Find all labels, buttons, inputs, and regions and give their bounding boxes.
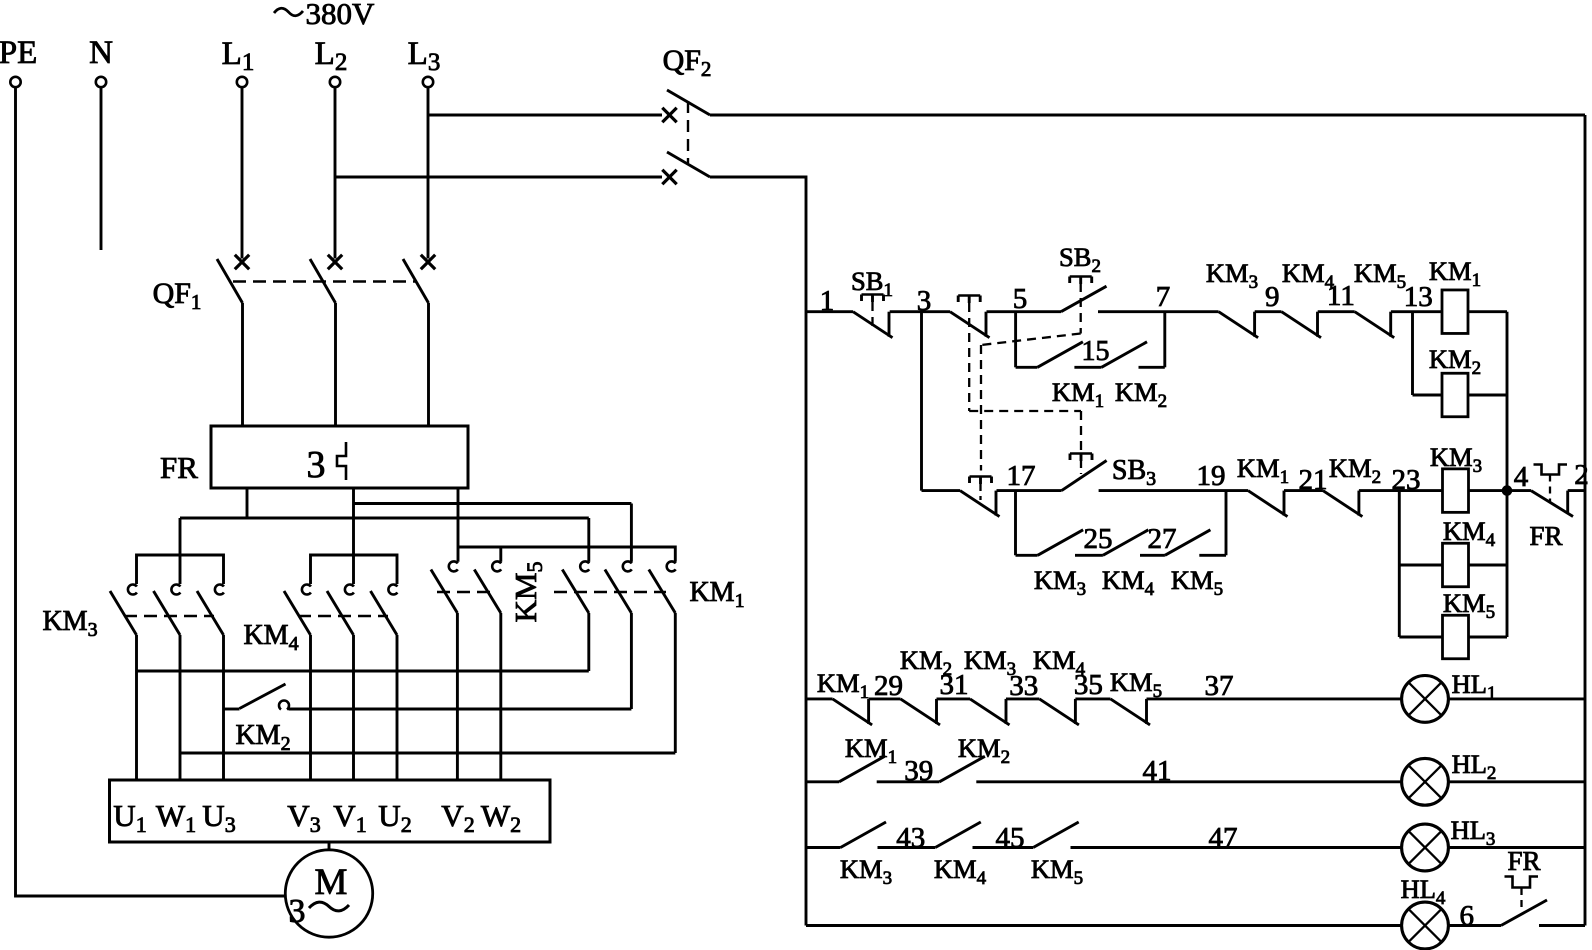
wire bypass riser to node19 — [1225, 491, 1228, 556]
wire H2 right KM2 to KM1p2 — [289, 708, 632, 711]
breaker QF2 linkage dashed — [687, 101, 689, 163]
pushbutton SB2 dashed slope — [981, 334, 1081, 346]
contactor KM5 NO bypass — [1165, 530, 1211, 556]
wire node13 drop — [1411, 312, 1414, 395]
coil KM4 — [1443, 543, 1469, 587]
thermal FR bottom dashed stem — [1520, 888, 1522, 912]
motor tilde — [309, 902, 349, 911]
wire HL4 to FR — [1449, 924, 1502, 927]
contactor KM4 pole1 — [302, 585, 311, 595]
svg-text:2: 2 — [1574, 459, 1589, 491]
contactor KM5/KM1 bridge — [457, 547, 675, 562]
wire KM1 coil to right rail — [1468, 310, 1507, 313]
pushbutton SB3 head over rung1 NC — [958, 294, 980, 297]
wire node17 bypass drop — [1014, 491, 1017, 556]
wire bypass seg4 — [1199, 554, 1226, 557]
wire HL3 rung start — [806, 846, 841, 849]
wire QF1 pole3 to FR box — [427, 303, 430, 426]
contactor KM1 linkage dashed — [554, 591, 666, 593]
terminal L1 circle — [237, 77, 247, 87]
wire HL1 to bus — [1449, 697, 1586, 700]
wire 47 to HL3 — [1071, 846, 1402, 849]
pushbutton SB2 NC contact 3-17 — [960, 491, 1000, 517]
breaker QF1 linkage dashed — [233, 280, 417, 282]
pushbutton SB3 linkage dashed down — [968, 303, 970, 411]
contactor KM3 NO contact HL3 — [841, 822, 887, 848]
motor M circle — [285, 850, 372, 937]
wire FR out1 — [246, 488, 249, 518]
contactor KM2 NC contact HL1 — [901, 699, 941, 725]
wire FR out3 to KM5 pole1 — [457, 488, 460, 562]
wire W2 column — [499, 613, 502, 780]
breaker QF1 pole1 x-mark — [235, 255, 249, 269]
wire SB2 to node7 — [1098, 310, 1219, 313]
wire QF1 pole2 to FR box — [334, 303, 337, 426]
wire 13 to KM1 coil — [1391, 310, 1442, 313]
wire U1 column — [135, 635, 138, 780]
lamp HL4 — [1402, 902, 1449, 949]
contactor KM1 NO contact HL2 — [839, 756, 885, 782]
contactor KM4 pole2 — [345, 585, 354, 595]
svg-text:9: 9 — [1265, 281, 1280, 313]
svg-text:4: 4 — [1514, 461, 1529, 493]
terminal PE circle — [10, 77, 20, 87]
wire L1 to QF1 — [241, 88, 244, 259]
lamp HL3 — [1402, 824, 1449, 871]
wire bypass seg2 — [1075, 554, 1103, 557]
breaker QF1 pole3 blade — [403, 259, 429, 303]
net label ~380V tilde — [274, 8, 303, 16]
svg-text:47: 47 — [1209, 822, 1238, 854]
wire SB1 to node3 — [890, 310, 950, 313]
wire 45 — [973, 846, 1034, 849]
breaker QF2 pole2 x-mark — [662, 170, 676, 184]
svg-text:3: 3 — [289, 893, 306, 930]
wire HL1 rung start — [806, 697, 833, 700]
contactor KM5 linkage dashed — [437, 591, 492, 593]
wire 35 — [1075, 697, 1110, 700]
wire E left drop to KM3 center — [179, 518, 182, 584]
contactor KM2 NO holding — [1102, 342, 1148, 368]
wire 31 — [937, 697, 971, 700]
contactor KM4 NC contact HL1 — [1039, 699, 1079, 725]
breaker QF1 pole3 x-mark — [421, 255, 435, 269]
pushbutton SB2 head — [1070, 275, 1092, 278]
wire E phase1 distribution — [180, 517, 589, 520]
pushbutton SB1 head — [862, 293, 884, 296]
wire 41 to HL2 — [976, 780, 1401, 783]
coil KM3 — [1443, 469, 1469, 512]
pushbutton SB3 NO contact 17-19 — [1062, 461, 1107, 491]
lamp HL1 — [1402, 676, 1449, 723]
wire 29 — [869, 697, 901, 700]
svg-text:6: 6 — [1460, 900, 1475, 932]
svg-text:3: 3 — [307, 444, 326, 486]
breaker QF1 pole1 blade — [217, 259, 243, 303]
thermal FR NC contact seat — [1566, 491, 1569, 513]
wire L2 to QF1 — [334, 88, 337, 259]
breaker QF2 pole2 blade — [667, 152, 710, 177]
breaker QF2 pole1 x-mark — [662, 108, 676, 122]
contactor KM5 NO contact HL3 — [1033, 822, 1079, 848]
wire D drop to KM1 pole2 — [630, 504, 633, 562]
svg-text:35: 35 — [1074, 669, 1103, 701]
svg-text:11: 11 — [1327, 280, 1355, 312]
svg-text:5: 5 — [1013, 283, 1028, 315]
svg-text:3: 3 — [917, 285, 932, 317]
svg-text:43: 43 — [896, 822, 925, 854]
wire 9 — [1255, 310, 1282, 313]
wire NC to node5 — [987, 310, 1062, 313]
wire 11 — [1318, 310, 1355, 313]
wire QF1 pole1 to FR box — [241, 303, 244, 426]
wire rung1 bus to SB1 — [806, 310, 853, 313]
coil KM5 — [1443, 615, 1469, 659]
contactor KM3 pole3 — [215, 585, 224, 595]
pushbutton SB2 dashed down to rung2 NC — [980, 345, 982, 471]
svg-text:25: 25 — [1084, 523, 1113, 555]
wire N stub — [100, 88, 103, 251]
thermal FR trip symbol — [1534, 465, 1568, 475]
wire QF2 pole2 to left bus — [710, 177, 806, 926]
wire H1 KM1p1 to U1 — [137, 670, 589, 673]
contactor KM3 top bridge — [137, 555, 224, 584]
wire holding branch seg1 — [1016, 366, 1038, 369]
wire U3 column — [222, 635, 225, 780]
svg-text:PE: PE — [0, 35, 37, 71]
contactor KM5 NC contact HL1 — [1111, 699, 1151, 725]
wire HL2 rung start — [806, 780, 839, 783]
wire KM5 coil rung left — [1399, 636, 1443, 639]
contactor KM3 pole2 — [171, 585, 180, 595]
thermal FR bottom contact blade — [1501, 900, 1547, 926]
terminal L2 circle — [330, 77, 340, 87]
svg-text:15: 15 — [1082, 336, 1110, 367]
contactor KM4 pole3 — [388, 585, 397, 595]
wire PE down and to motor — [16, 88, 286, 897]
pushbutton SB2 head over rung2 NC — [970, 475, 992, 478]
wire H2 left KM2 contact feed — [224, 708, 240, 711]
wire 23 to KM3 coil — [1359, 489, 1443, 492]
wire bypass seg3 — [1140, 554, 1165, 557]
contactor KM2 NC contact rung2 — [1323, 491, 1363, 517]
wire KM3 coil to FR — [1469, 489, 1532, 492]
wire FR bottom to bus — [1539, 924, 1585, 927]
wire HL4 rung — [806, 924, 1402, 927]
contactor KM1 NC contact rung2 — [1248, 491, 1288, 517]
pushbutton SB3 linkage dashed to NO — [1080, 411, 1082, 453]
contactor KM4 top bridge — [311, 555, 398, 584]
svg-text:N: N — [89, 35, 113, 71]
svg-text:FR: FR — [160, 450, 198, 485]
wire holding branch riser — [1163, 312, 1166, 368]
contactor KM5 pole1 — [449, 561, 458, 571]
svg-text:FR: FR — [1507, 846, 1540, 876]
thermal relay FR box — [211, 426, 468, 488]
contactor KM4 NC contact rung1 — [1282, 312, 1322, 338]
contactor KM3 NO bypass — [1038, 530, 1084, 556]
wire L3 to QF1 — [427, 88, 430, 259]
wire KM2 coil rung left — [1413, 394, 1443, 397]
contactor KM1 NC contact HL1 — [833, 699, 873, 725]
wire KM1 pole3 drop — [674, 613, 677, 753]
breaker QF1 pole2 x-mark — [328, 255, 342, 269]
coil KM1 — [1442, 290, 1468, 334]
contactor KM3 pole1 — [128, 585, 137, 595]
svg-text:7: 7 — [1156, 281, 1171, 313]
wire node3 to rung2 — [920, 312, 923, 491]
contactor KM4 NO bypass — [1103, 530, 1149, 556]
contactor KM5 NC contact rung1 — [1355, 312, 1395, 338]
contactor KM2 contact seat — [279, 701, 289, 710]
wire V3 column — [309, 635, 312, 780]
pushbutton SB3 linkage dashed across — [969, 410, 1081, 412]
node 4 junction dot — [1502, 486, 1512, 496]
svg-text:45: 45 — [996, 822, 1025, 854]
wire 43 — [878, 846, 936, 849]
wire holding branch seg2 — [1074, 366, 1101, 369]
pushbutton SB1 NC contact — [853, 312, 893, 338]
thermal FR NC contact blade — [1531, 491, 1573, 517]
wire KM4 coil right — [1469, 564, 1508, 567]
breaker QF2 pole1 blade — [667, 90, 710, 115]
svg-text:17: 17 — [1007, 460, 1036, 492]
wire 39 — [877, 780, 940, 783]
pushbutton SB2 dashed stub to blade — [979, 484, 981, 500]
wire W1 column — [179, 635, 182, 780]
breaker QF1 pole2 blade — [310, 259, 336, 303]
wire L3 branch to QF2 pole1 — [428, 114, 662, 117]
svg-text:37: 37 — [1205, 670, 1234, 702]
pushbutton SB3 dashed stem — [1080, 461, 1082, 474]
wire QF2 pole1 to right bus — [710, 114, 1585, 117]
wire bypass seg1 — [1016, 554, 1038, 557]
contactor KM3 linkage dashed — [124, 615, 214, 617]
contactor KM3 NC contact rung1 — [1219, 312, 1259, 338]
coil KM2 — [1442, 373, 1468, 417]
lamp HL2 — [1402, 758, 1449, 805]
wire 17 — [997, 489, 1062, 492]
wire E right drop to KM1 pole1 — [587, 518, 590, 562]
pushbutton SB3 head — [1070, 452, 1092, 455]
wire L2 branch to QF2 pole2 — [335, 176, 662, 179]
wire D phase2 distribution — [354, 502, 632, 505]
contactor KM4 linkage dashed — [298, 615, 388, 617]
wire 37 to HL1 — [1147, 697, 1402, 700]
pushbutton SB2 NO contact 5-7 — [1061, 286, 1107, 312]
terminal box — [110, 780, 551, 842]
wire FR to right bus — [1568, 489, 1585, 492]
contactor KM2 NO contact HL2 — [939, 756, 985, 782]
wire KM2 coil to right rail — [1468, 394, 1507, 397]
wire KM1 pole1 drop — [587, 613, 590, 671]
contactor KM1 pole3 — [667, 561, 676, 571]
wire 21 — [1284, 489, 1323, 492]
wire left coil rail — [1398, 491, 1401, 637]
contactor KM2 contact blade — [240, 684, 286, 709]
pushbutton SB3 NC contact 3-5 — [950, 312, 990, 338]
svg-text:FR: FR — [1529, 521, 1562, 551]
pushbutton SB1 dashed stem — [871, 302, 873, 327]
wire HL2 to bus — [1449, 780, 1586, 783]
pushbutton SB2 dashed stem — [1080, 283, 1082, 334]
contactor KM1 NO holding — [1037, 342, 1083, 368]
thermal FR dashed stem — [1549, 475, 1551, 504]
wire KM1 pole2 drop — [630, 613, 633, 709]
wire SB3 to node19 — [1099, 489, 1248, 492]
wire KM5 coil right — [1469, 636, 1508, 639]
thermal relay FR heater glyph — [337, 442, 346, 480]
wire right control bus — [1584, 115, 1587, 926]
wire HL3 to bus — [1449, 846, 1586, 849]
svg-text:380V: 380V — [306, 0, 376, 31]
wire KM4 coil rung left — [1399, 564, 1443, 567]
contactor KM5 pole2 — [492, 561, 501, 571]
terminal L3 circle — [423, 77, 433, 87]
contactor KM3 NC contact HL1 — [970, 699, 1010, 725]
terminal N circle — [96, 77, 106, 87]
svg-text:29: 29 — [874, 670, 903, 702]
wire V2 column — [456, 613, 459, 780]
wire right coil rail — [1506, 312, 1509, 637]
svg-text:19: 19 — [1197, 460, 1226, 492]
wire node5 holding drop — [1014, 312, 1017, 368]
contactor KM1 pole1 — [580, 561, 589, 571]
wire holding branch seg3 — [1139, 366, 1165, 369]
wire rung2 node3 to NC — [922, 489, 961, 492]
wire 33 — [1006, 697, 1039, 700]
motor M stub wire — [328, 842, 331, 850]
wire FR out2 to KM4 center — [352, 488, 355, 584]
thermal FR bottom trip symbol — [1505, 877, 1539, 888]
wire H3 KM1p3 to W1 — [180, 752, 675, 755]
svg-text:M: M — [315, 862, 348, 903]
contactor KM4 NO contact HL3 — [935, 822, 981, 848]
contactor KM1 pole2 — [623, 561, 632, 571]
wire U2 column — [396, 635, 399, 780]
wire V1 column — [352, 635, 355, 780]
